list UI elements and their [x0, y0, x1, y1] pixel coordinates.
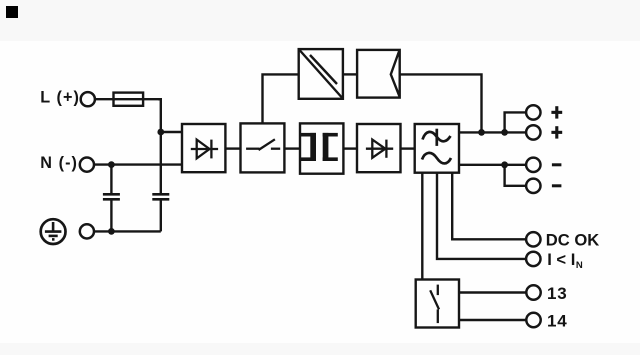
label minus lower	[552, 184, 562, 187]
AC wave crossed symbol	[423, 129, 451, 146]
wire plus bus	[459, 131, 526, 133]
transformer primary winding	[301, 133, 316, 161]
diode D2	[366, 140, 393, 158]
wire switch to transformer	[284, 147, 300, 149]
wire N terminal to rectifier	[94, 163, 182, 165]
terminal DC OK	[526, 232, 540, 246]
svg-text:I < I: I < I	[547, 250, 575, 269]
wire L branch vertical	[158, 99, 161, 194]
svg-text:13: 13	[547, 284, 568, 303]
label plus upper	[551, 106, 562, 118]
corner mark	[6, 6, 18, 18]
rectifier block	[182, 124, 225, 172]
relay block K1	[416, 280, 459, 328]
terminal N	[80, 158, 94, 172]
node ground junction	[108, 228, 115, 235]
svg-text:N: N	[576, 260, 583, 271]
wire diode block to output stage	[401, 147, 415, 149]
wire I less than IN	[437, 172, 526, 259]
wire switch to upper converter	[263, 74, 299, 123]
switch contact symbol	[246, 139, 280, 150]
limiter block	[357, 50, 400, 98]
label minus upper	[552, 163, 562, 166]
AC wave symbol	[422, 153, 451, 164]
relay contact symbol	[430, 285, 439, 324]
diode D1	[191, 140, 218, 159]
fuse F1	[114, 93, 161, 106]
converter diagonal short	[310, 55, 337, 84]
wire contact 14	[459, 319, 526, 321]
terminal plus lower	[526, 125, 540, 139]
DC/DC converter block	[299, 49, 343, 99]
terminal minus upper	[526, 158, 540, 172]
node N-C1 junction	[108, 161, 115, 168]
wire limiter to output bus	[400, 74, 482, 132]
node minus branch	[501, 161, 508, 168]
terminal I less than IN	[526, 252, 540, 266]
terminal ground	[80, 224, 94, 238]
wire relay feed	[421, 172, 423, 279]
capacitor C2	[152, 194, 169, 231]
transformer T1	[300, 123, 343, 173]
terminal 14	[526, 313, 540, 327]
limiter chevron	[391, 50, 400, 96]
diode block	[357, 124, 401, 172]
wire contact 13	[459, 291, 526, 293]
wire rectifier to switch	[225, 147, 240, 149]
terminal L	[81, 92, 95, 106]
svg-text:N (-): N (-)	[40, 154, 78, 172]
wire junction to rectifier input	[161, 131, 182, 133]
wire bottom ground bus	[94, 230, 161, 232]
terminal minus lower	[526, 179, 540, 193]
label plus lower	[551, 126, 562, 138]
wire transformer to diode block	[343, 147, 357, 149]
switching stage block	[241, 123, 285, 172]
wire L terminal to fuse	[95, 98, 115, 100]
capacitor C1	[103, 165, 120, 232]
svg-text:DC OK: DC OK	[546, 230, 599, 249]
node plus branch	[501, 129, 508, 136]
node output bus junction	[478, 129, 485, 136]
wire converter to limiter	[343, 73, 357, 75]
svg-text:L (+): L (+)	[40, 89, 80, 107]
PE earth symbol	[41, 219, 66, 244]
node L-rectifier junction	[157, 129, 164, 136]
output stage block	[415, 124, 459, 173]
terminal plus upper	[526, 105, 540, 119]
svg-text:14: 14	[547, 311, 568, 330]
wire plus branch riser	[505, 112, 527, 132]
wire DC OK	[452, 172, 526, 239]
wire minus branch riser	[505, 165, 527, 186]
terminal 13	[526, 285, 540, 299]
converter diagonal	[300, 50, 343, 98]
wire minus bus	[459, 164, 526, 166]
transformer secondary winding	[323, 133, 338, 161]
